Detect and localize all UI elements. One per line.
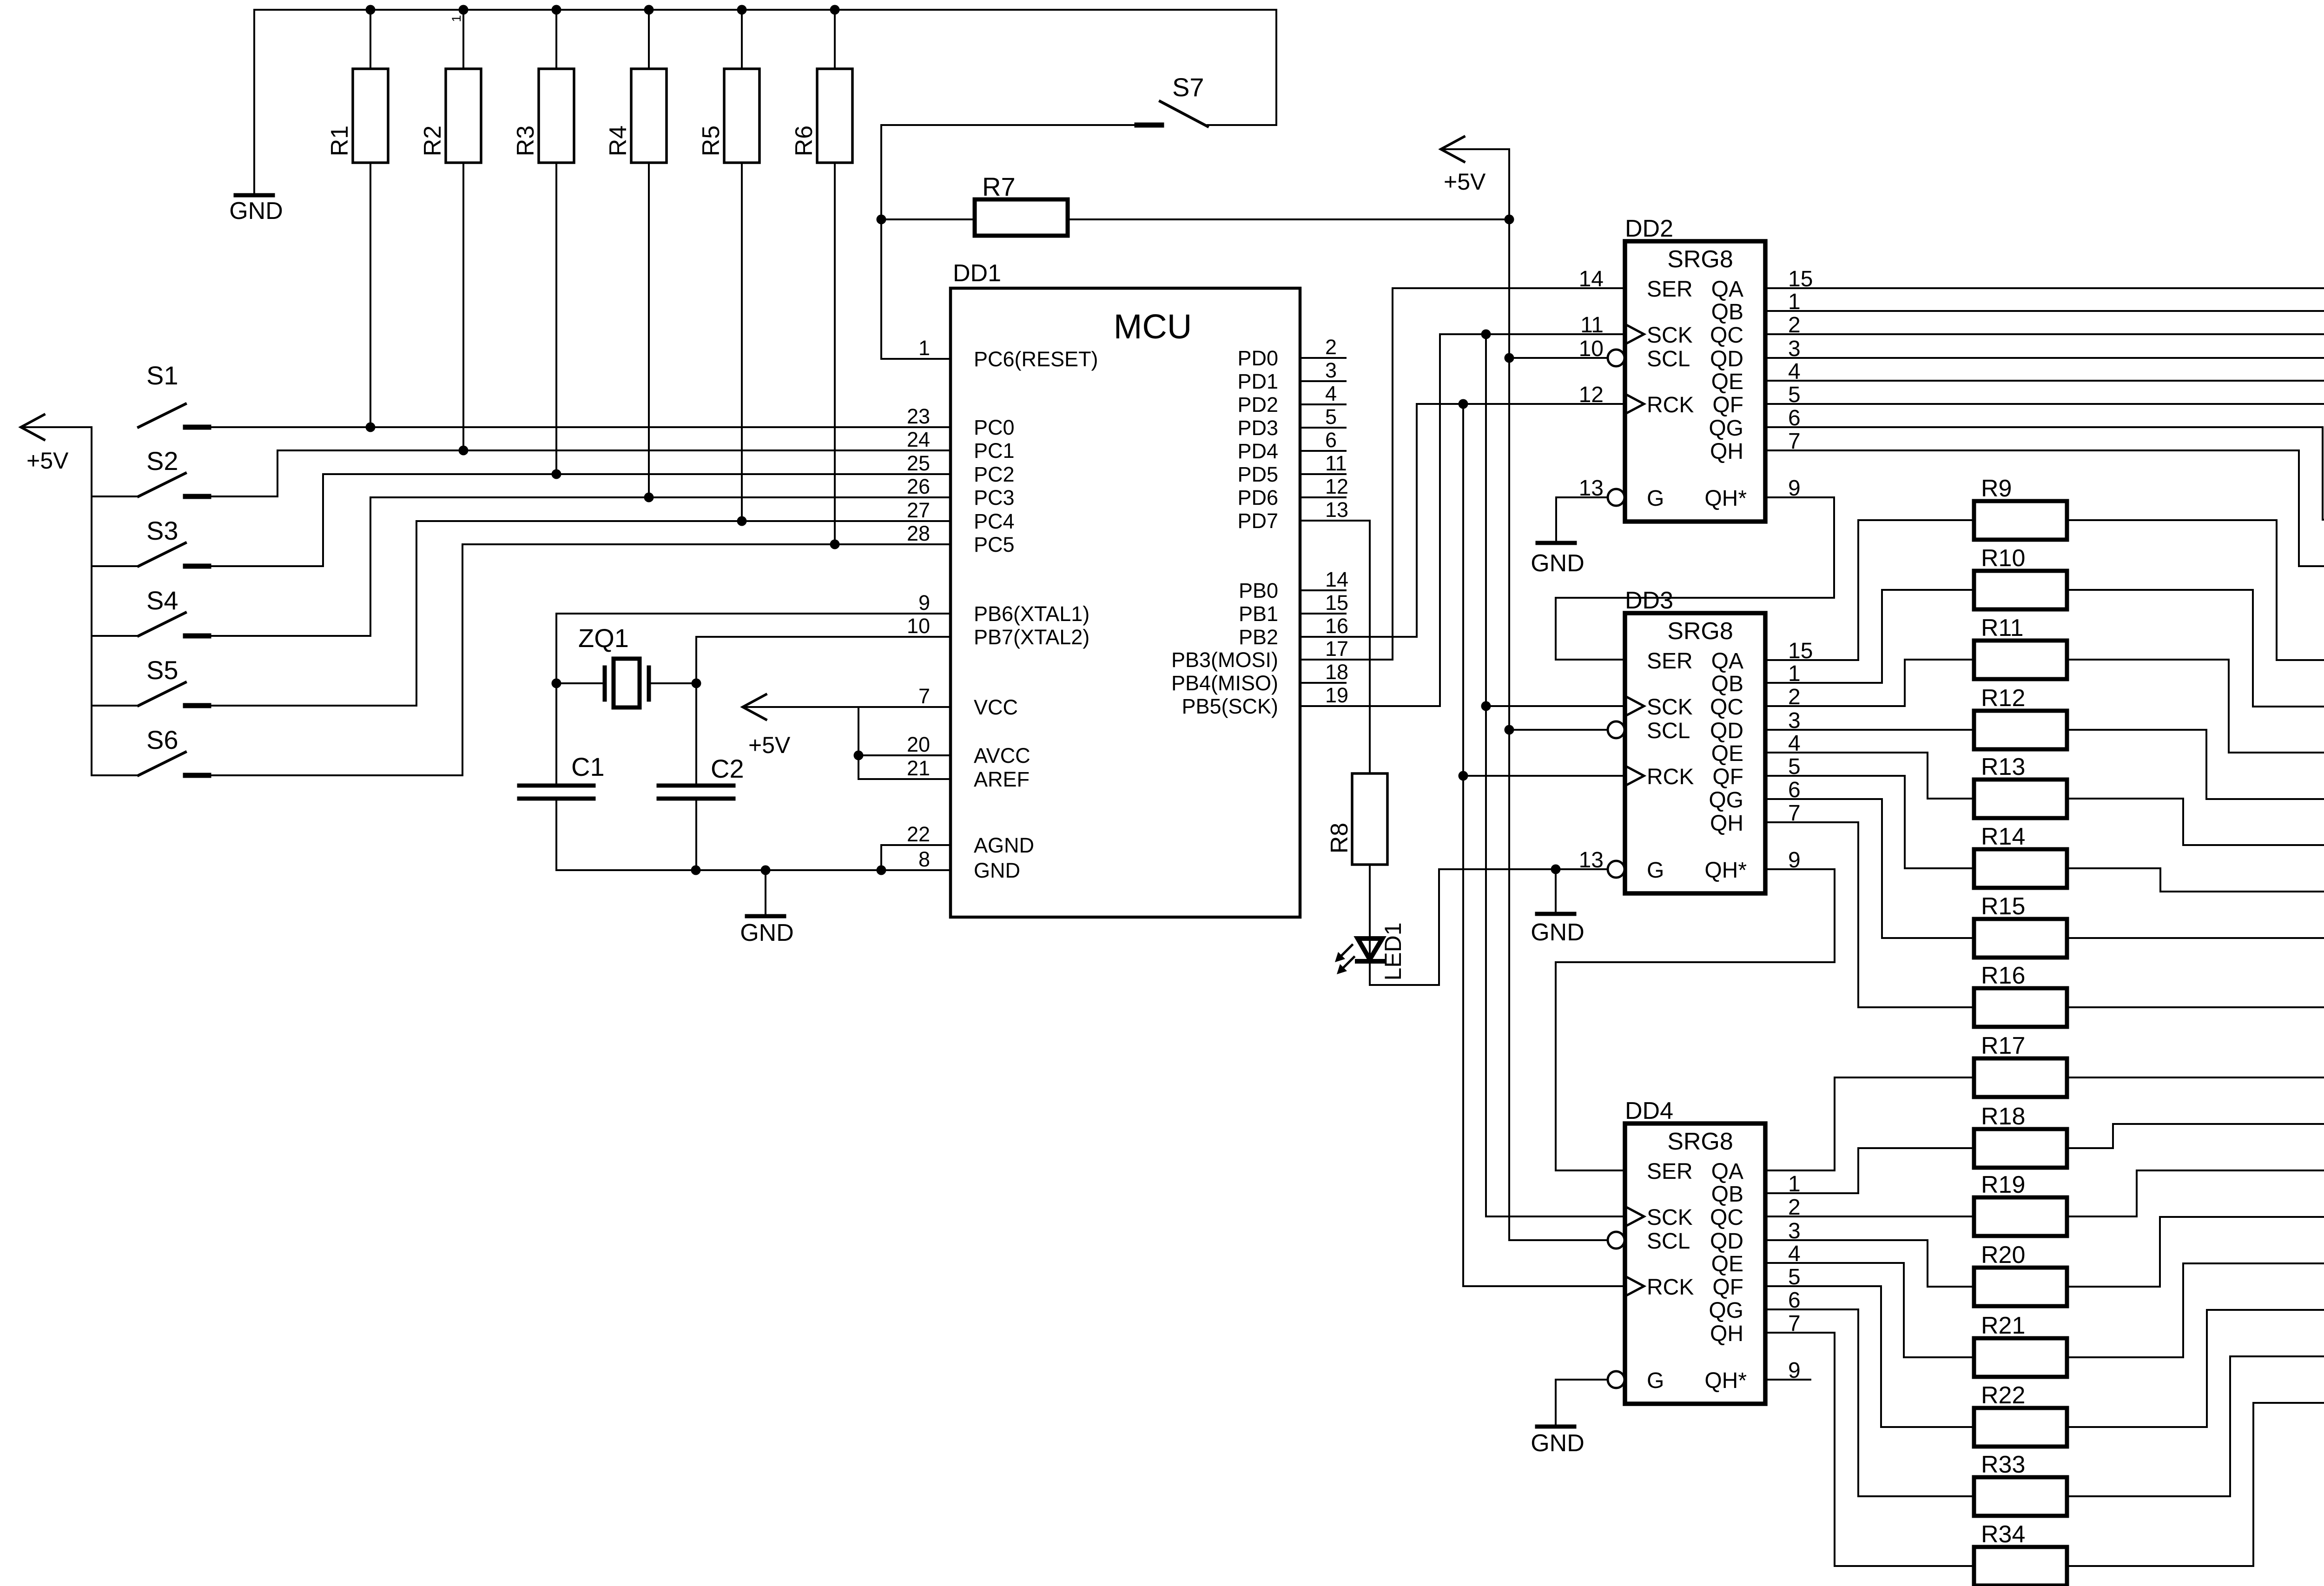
svg-text:PC4: PC4 [974,509,1015,533]
svg-text:R5: R5 [698,126,725,156]
svg-text:GND: GND [1531,550,1585,577]
wire DD3 QC to R11 [1765,660,1974,706]
wire R16 to RED8 [2067,985,2324,1007]
switch S6 [92,774,139,776]
wire R18 to GRN2 [2067,1124,2324,1148]
svg-text:QB: QB [1711,1182,1743,1207]
power +5V arrow VCC [743,694,766,720]
svg-text:SCK: SCK [1647,1205,1693,1230]
svg-text:R11: R11 [1981,615,2024,641]
resistor R13 [1974,780,2067,818]
svg-text:GND: GND [1531,919,1585,946]
junction dot AVCC [854,751,864,760]
wire DD4 QD to R20 [1765,1240,1974,1287]
junction dot R5 top bus [737,5,747,15]
pin stub PB row 1270 [1300,589,1346,591]
wire S3 to PC2 [185,474,951,566]
wire R12 to RED4 [2067,730,2324,799]
svg-text:S4: S4 [146,586,178,615]
ground GND top-left [253,10,255,195]
resistor R21 [1974,1338,2067,1377]
svg-text:PB6(XTAL1): PB6(XTAL1) [974,602,1089,626]
svg-text:22: 22 [907,822,930,846]
junction dot crystal right [692,679,701,688]
wire DD4 QE to R21 [1765,1263,1974,1357]
shift register DD3 [1625,613,1765,893]
resistor R20 [1974,1268,2067,1306]
wire R10 to RED2 [2067,590,2324,707]
svg-text:QF: QF [1712,1275,1743,1300]
svg-text:C2: C2 [711,754,744,783]
pin stub PB row 1320 [1300,613,1346,615]
junction dot DD3 G GND [1551,865,1561,874]
svg-text:PC1: PC1 [974,439,1015,463]
svg-text:QH*: QH* [1704,858,1747,883]
svg-text:SCK: SCK [1647,695,1693,720]
junction dot R2 top bus [459,5,469,15]
svg-text:DD4: DD4 [1625,1097,1673,1124]
wire DD2 QB to ROW2 [1765,288,2324,311]
junction dot R4 to PC3 row [644,493,654,502]
svg-text:QE: QE [1711,741,1743,766]
svg-text:R15: R15 [1981,893,2025,920]
ground GND under DD3 [1555,869,1557,914]
resistor R12 [1974,711,2067,749]
svg-text:QD: QD [1710,719,1743,743]
wire S5 to PC4 [185,521,951,706]
svg-text:PD2: PD2 [1237,393,1278,416]
svg-text:12: 12 [1579,383,1604,407]
svg-text:GND: GND [229,198,283,225]
wire LED1 cathode to DD3 G net [1370,869,1608,985]
wire DD4 QF to R22 [1765,1286,1974,1427]
junction dot R5 to PC4 row [737,516,747,526]
resistor R14 [1974,849,2067,888]
switch S3 [92,565,139,567]
svg-text:PB0: PB0 [1239,579,1278,602]
svg-text:R6: R6 [791,126,818,156]
LED LED1 [1369,865,1371,960]
svg-text:SER: SER [1647,649,1693,674]
svg-text:PD6: PD6 [1237,486,1278,509]
svg-text:QA: QA [1711,1159,1743,1184]
svg-text:14: 14 [1579,267,1604,291]
svg-text:R22: R22 [1981,1382,2025,1409]
svg-text:QC: QC [1710,695,1743,720]
svg-text:PD3: PD3 [1237,416,1278,440]
svg-text:R12: R12 [1981,685,2025,712]
svg-text:GND: GND [740,919,794,946]
wire AVCC [858,754,951,756]
svg-text:QG: QG [1709,788,1743,813]
pin stub PD row 970 [1300,450,1346,452]
capacitor C1 [555,683,557,786]
svg-text:GND: GND [1531,1430,1585,1457]
resistor R11 [1974,641,2067,679]
resistor R6 [834,10,836,69]
wire R33 to GRN7 [2067,1356,2324,1496]
wire reset net vertical [880,125,882,359]
svg-text:15: 15 [1325,591,1348,615]
svg-text:R2: R2 [419,126,446,156]
svg-text:20: 20 [907,733,930,756]
wire DD4 QC to R19 [1765,1216,1974,1217]
resistor R7 [881,218,975,220]
power +5V arrow right [1441,137,1464,162]
svg-text:SCL: SCL [1647,719,1690,743]
shift register DD4 [1625,1123,1765,1404]
wire S7 to top bus [1275,10,1277,125]
svg-text:VCC: VCC [974,695,1018,719]
wire S1 to PC0 [185,426,951,428]
resistor R22 [1974,1408,2067,1447]
svg-text:PD1: PD1 [1237,370,1278,393]
svg-text:QG: QG [1709,416,1743,441]
svg-text:RCK: RCK [1647,393,1694,417]
wire DD3 QA to R9 [1765,520,1974,660]
svg-text:1: 1 [449,15,463,22]
junction dot GND stem [761,866,771,875]
svg-text:R4: R4 [605,126,632,156]
svg-text:17: 17 [1325,637,1348,661]
wire SCL to DD4 [1509,1239,1608,1241]
svg-text:13: 13 [1579,848,1604,872]
resistor R18 [1974,1129,2067,1168]
DD3 pin SCL [1608,721,1624,738]
svg-text:SCL: SCL [1647,1229,1690,1254]
wire DD3 QF to R14 [1765,776,1974,868]
resistor R2 [462,10,464,69]
svg-text:R16: R16 [1981,962,2025,989]
svg-text:QE: QE [1711,1252,1743,1276]
svg-text:+5V: +5V [1444,169,1486,195]
svg-text:SER: SER [1647,277,1693,302]
svg-text:PB5(SCK): PB5(SCK) [1182,694,1278,718]
resistor R19 [1974,1197,2067,1236]
svg-text:SCK: SCK [1647,323,1693,348]
resistor R8 [1352,773,1387,865]
svg-text:RCK: RCK [1647,765,1694,789]
junction dot SCL DD2 [1505,353,1514,363]
svg-text:10: 10 [907,614,930,638]
wire SCK to DD4 [1486,1216,1625,1217]
wire DD2 QC to ROW3 [1765,333,2324,335]
MCU DD1 [951,288,1300,917]
DD4 pin G [1608,1371,1624,1388]
pin stub PD row 920 [1300,427,1346,429]
svg-text:11: 11 [1325,451,1347,475]
pin stub PB row 1469 [1300,682,1346,684]
wire RCK bus vertical [1462,404,1464,1286]
wire XTAL1 pin9 [556,613,951,615]
resistor R5 [741,10,743,69]
svg-text:R1: R1 [326,126,353,156]
wire DD4 QH to R34 [1765,1333,1974,1566]
svg-text:13: 13 [1325,498,1348,522]
pin stub PD row 870 [1300,403,1346,405]
crystal ZQ1 [556,682,605,684]
svg-text:GND: GND [974,859,1020,882]
junction dot C1 rail [691,866,701,875]
wire GND rail [556,869,951,871]
wire DD3 QE to R13 [1765,753,1974,799]
svg-text:7: 7 [918,684,930,708]
wire VCC to AVCC AREF [858,707,859,779]
wire top GND bus [254,9,1276,11]
svg-text:PC2: PC2 [974,463,1015,486]
junction dot RCK DD2 [1459,399,1468,409]
resistor R16 [1974,988,2067,1027]
wire AGND [881,844,951,846]
svg-text:24: 24 [907,428,930,451]
pin stub DD4 QH* [1765,1379,1810,1381]
wire DD3 QG to R15 [1765,799,1974,938]
wire R15 to RED7 [2067,937,2324,939]
svg-text:18: 18 [1325,660,1348,684]
svg-text:LED1: LED1 [1380,922,1406,980]
junction dot R6 top bus [830,5,840,15]
junction dot SCK DD3 [1481,701,1491,711]
wire DD2 QE to ROW5 [1765,381,2324,427]
svg-text:PB4(MISO): PB4(MISO) [1171,671,1278,695]
svg-text:QH: QH [1710,811,1743,836]
svg-text:R10: R10 [1981,545,2025,572]
wire R11 to RED3 [2067,660,2324,753]
junction dot R4 top bus [644,5,654,15]
switch S2 [92,496,139,497]
wire SCL to DD3 [1509,729,1608,731]
ground GND under DD2 [1556,497,1608,543]
wire RCK to DD4 [1463,1285,1625,1287]
DD4 pin SCL [1608,1232,1624,1249]
svg-text:C1: C1 [571,752,605,781]
svg-text:S6: S6 [146,725,178,754]
junction dot R6 to PC5 row [830,540,840,549]
wire RCK to DD3 [1463,775,1625,777]
svg-text:PD5: PD5 [1237,463,1278,486]
resistor R4 [648,10,650,69]
svg-text:R33: R33 [1981,1451,2025,1478]
svg-text:R18: R18 [1981,1103,2025,1130]
junction dot R3 top bus [552,5,561,15]
junction dot reset R7 [877,215,886,225]
wire DD2 QF to ROW6 [1765,404,2324,473]
svg-text:QF: QF [1712,765,1743,789]
wire SCL bus vertical [1508,149,1510,1240]
svg-text:R9: R9 [1981,475,2012,502]
svg-text:R34: R34 [1981,1521,2025,1548]
wire SCK bus vertical [1485,334,1487,1216]
resistor R1 [370,10,371,69]
svg-text:G: G [1647,858,1664,883]
svg-text:AVCC: AVCC [974,744,1030,767]
resistor R15 [1974,919,2067,958]
power +5V arrow top-left [21,415,44,440]
DD2 pin SCL [1608,350,1624,366]
svg-text:R20: R20 [1981,1242,2025,1269]
svg-text:DD1: DD1 [953,260,1001,287]
svg-text:ZQ1: ZQ1 [578,623,629,653]
wire DD4 QA to R17 [1765,1077,1974,1170]
resistor R9 [1974,501,2067,540]
svg-text:QB: QB [1711,672,1743,696]
svg-text:1: 1 [918,336,930,360]
svg-text:QA: QA [1711,277,1743,302]
svg-text:QH: QH [1710,439,1743,464]
shift register DD2 [1625,241,1765,522]
svg-text:QH*: QH* [1704,1368,1747,1393]
junction dot R7 to +5V line [1505,215,1514,225]
wire DD3 QH* to DD4 SER [1556,869,1835,1170]
svg-text:21: 21 [907,756,930,780]
svg-text:RCK: RCK [1647,1275,1694,1300]
svg-text:SCL: SCL [1647,347,1690,371]
svg-text:SRG8: SRG8 [1667,1128,1733,1155]
svg-text:S7: S7 [1172,73,1204,102]
wire XTAL2 pin10 [696,636,951,638]
junction dot R2 to PC1 row [459,446,469,456]
svg-text:QA: QA [1711,649,1743,674]
svg-text:R3: R3 [512,126,539,156]
wire DD3 QD to R12 [1765,729,1974,731]
wire R34 to GRN8 [2067,1403,2324,1566]
svg-text:QG: QG [1709,1298,1743,1323]
svg-text:25: 25 [907,451,930,475]
svg-text:16: 16 [1325,614,1348,638]
wire S6 to PC5 [185,544,951,775]
wire SCL to DD2 [1509,357,1608,359]
resistor R33 [1974,1477,2067,1516]
wire pin1 PC6 [881,358,951,360]
wire R19 to GRN3 [2067,1170,2324,1216]
svg-text:SRG8: SRG8 [1667,246,1733,273]
svg-text:DD3: DD3 [1625,587,1673,614]
svg-text:28: 28 [907,522,930,545]
svg-text:11: 11 [1580,313,1604,337]
junction dot SCL DD3 [1505,725,1514,735]
wire DD3 QH to R16 [1765,822,1974,1007]
wire switch bus vertical [91,427,92,775]
wire R21 to GRN5 [2067,1263,2324,1357]
svg-text:8: 8 [918,847,930,871]
wire R13 to RED5 [2067,799,2324,845]
svg-text:AGND: AGND [974,833,1034,857]
wire DD2 QA to ROW1 [1765,242,2324,288]
pin stub PD row 820 [1300,380,1346,382]
wire DD2 QD to ROW4 [1765,358,2324,380]
svg-text:SRG8: SRG8 [1667,618,1733,645]
svg-text:PD7: PD7 [1237,509,1278,533]
wire S4 to PC3 [185,497,951,636]
svg-text:G: G [1647,486,1664,511]
wire R20 to GRN4 [2067,1217,2324,1287]
wire PB3 MOSI to DD2 SER [1300,288,1625,660]
DD4 pin RCK [1627,1277,1644,1295]
capacitor C2 [659,784,733,788]
wire PB5 SCK to DD2 SCK [1300,334,1625,706]
svg-text:PB3(MOSI): PB3(MOSI) [1171,648,1278,672]
DD4 pin SCK [1627,1208,1644,1225]
svg-text:PD0: PD0 [1237,346,1278,370]
svg-text:+5V: +5V [26,448,69,474]
junction dot SCK DD2 [1481,330,1491,339]
svg-text:QH: QH [1710,1322,1743,1346]
DD2 pin RCK [1627,395,1644,413]
pin stub PD row 1070 [1300,496,1346,498]
junction dot crystal left [552,679,561,688]
wire R22 to GRN6 [2067,1310,2324,1427]
wire R9 to RED1 [2067,520,2324,660]
svg-text:PC6(RESET): PC6(RESET) [974,347,1098,371]
wire R14 to RED6 [2067,868,2324,892]
svg-text:PB2: PB2 [1239,625,1278,649]
svg-text:4: 4 [1325,382,1337,405]
pin stub PD row 770 [1300,357,1346,359]
svg-text:PB1: PB1 [1239,602,1278,626]
svg-text:PC3: PC3 [974,486,1015,509]
svg-text:12: 12 [1325,475,1348,498]
svg-text:10: 10 [1579,337,1604,361]
svg-text:PB7(XTAL2): PB7(XTAL2) [974,625,1089,649]
svg-text:QE: QE [1711,370,1743,394]
wire DD2 QH to ROW8 [1765,450,2324,566]
wire DD2 QG to ROW7 [1765,427,2324,520]
wire PD7 to R8 [1300,521,1370,773]
wire DD2 QH* to DD3 SER [1556,497,1834,660]
svg-text:QF: QF [1712,393,1743,417]
svg-text:PC5: PC5 [974,533,1015,556]
switch S4 [92,635,139,637]
resistor R10 [1974,571,2067,609]
svg-text:S1: S1 [146,361,178,390]
svg-text:6: 6 [1325,428,1337,452]
svg-text:S5: S5 [146,655,178,685]
svg-text:9: 9 [918,591,930,615]
wire R17 to GRN1 [2067,1077,2324,1078]
junction dot RCK DD3 [1459,771,1468,781]
svg-text:SER: SER [1647,1159,1693,1184]
svg-text:R14: R14 [1981,823,2025,850]
switch S1 [139,404,185,427]
svg-text:PC0: PC0 [974,416,1015,439]
svg-text:R21: R21 [1981,1312,2025,1339]
svg-text:19: 19 [1325,683,1348,707]
svg-text:2: 2 [1325,335,1337,359]
svg-text:S3: S3 [146,516,178,545]
svg-text:+5V: +5V [748,732,791,758]
junction dot R3 to PC2 row [552,469,561,479]
DD2 pin G [1608,489,1624,506]
svg-text:MCU: MCU [1114,307,1192,346]
wire DD3 QB to R10 [1765,590,1974,683]
svg-text:R19: R19 [1981,1171,2025,1198]
DD3 pin SCK [1627,697,1644,715]
switch S5 [92,705,139,707]
svg-text:R13: R13 [1981,753,2025,780]
svg-text:R7: R7 [982,172,1016,201]
svg-text:G: G [1647,1368,1664,1393]
svg-text:AREF: AREF [974,767,1030,791]
resistor R34 [1974,1547,2067,1586]
DD3 pin G [1608,861,1624,878]
wire DD4 QB to R18 [1765,1148,1974,1193]
svg-text:PD4: PD4 [1237,439,1278,463]
svg-text:DD2: DD2 [1625,215,1673,242]
svg-text:QD: QD [1710,1229,1743,1254]
svg-text:QD: QD [1710,347,1743,371]
ground GND under MCU [765,870,766,916]
wire DD4 QG to R33 [1765,1309,1974,1496]
